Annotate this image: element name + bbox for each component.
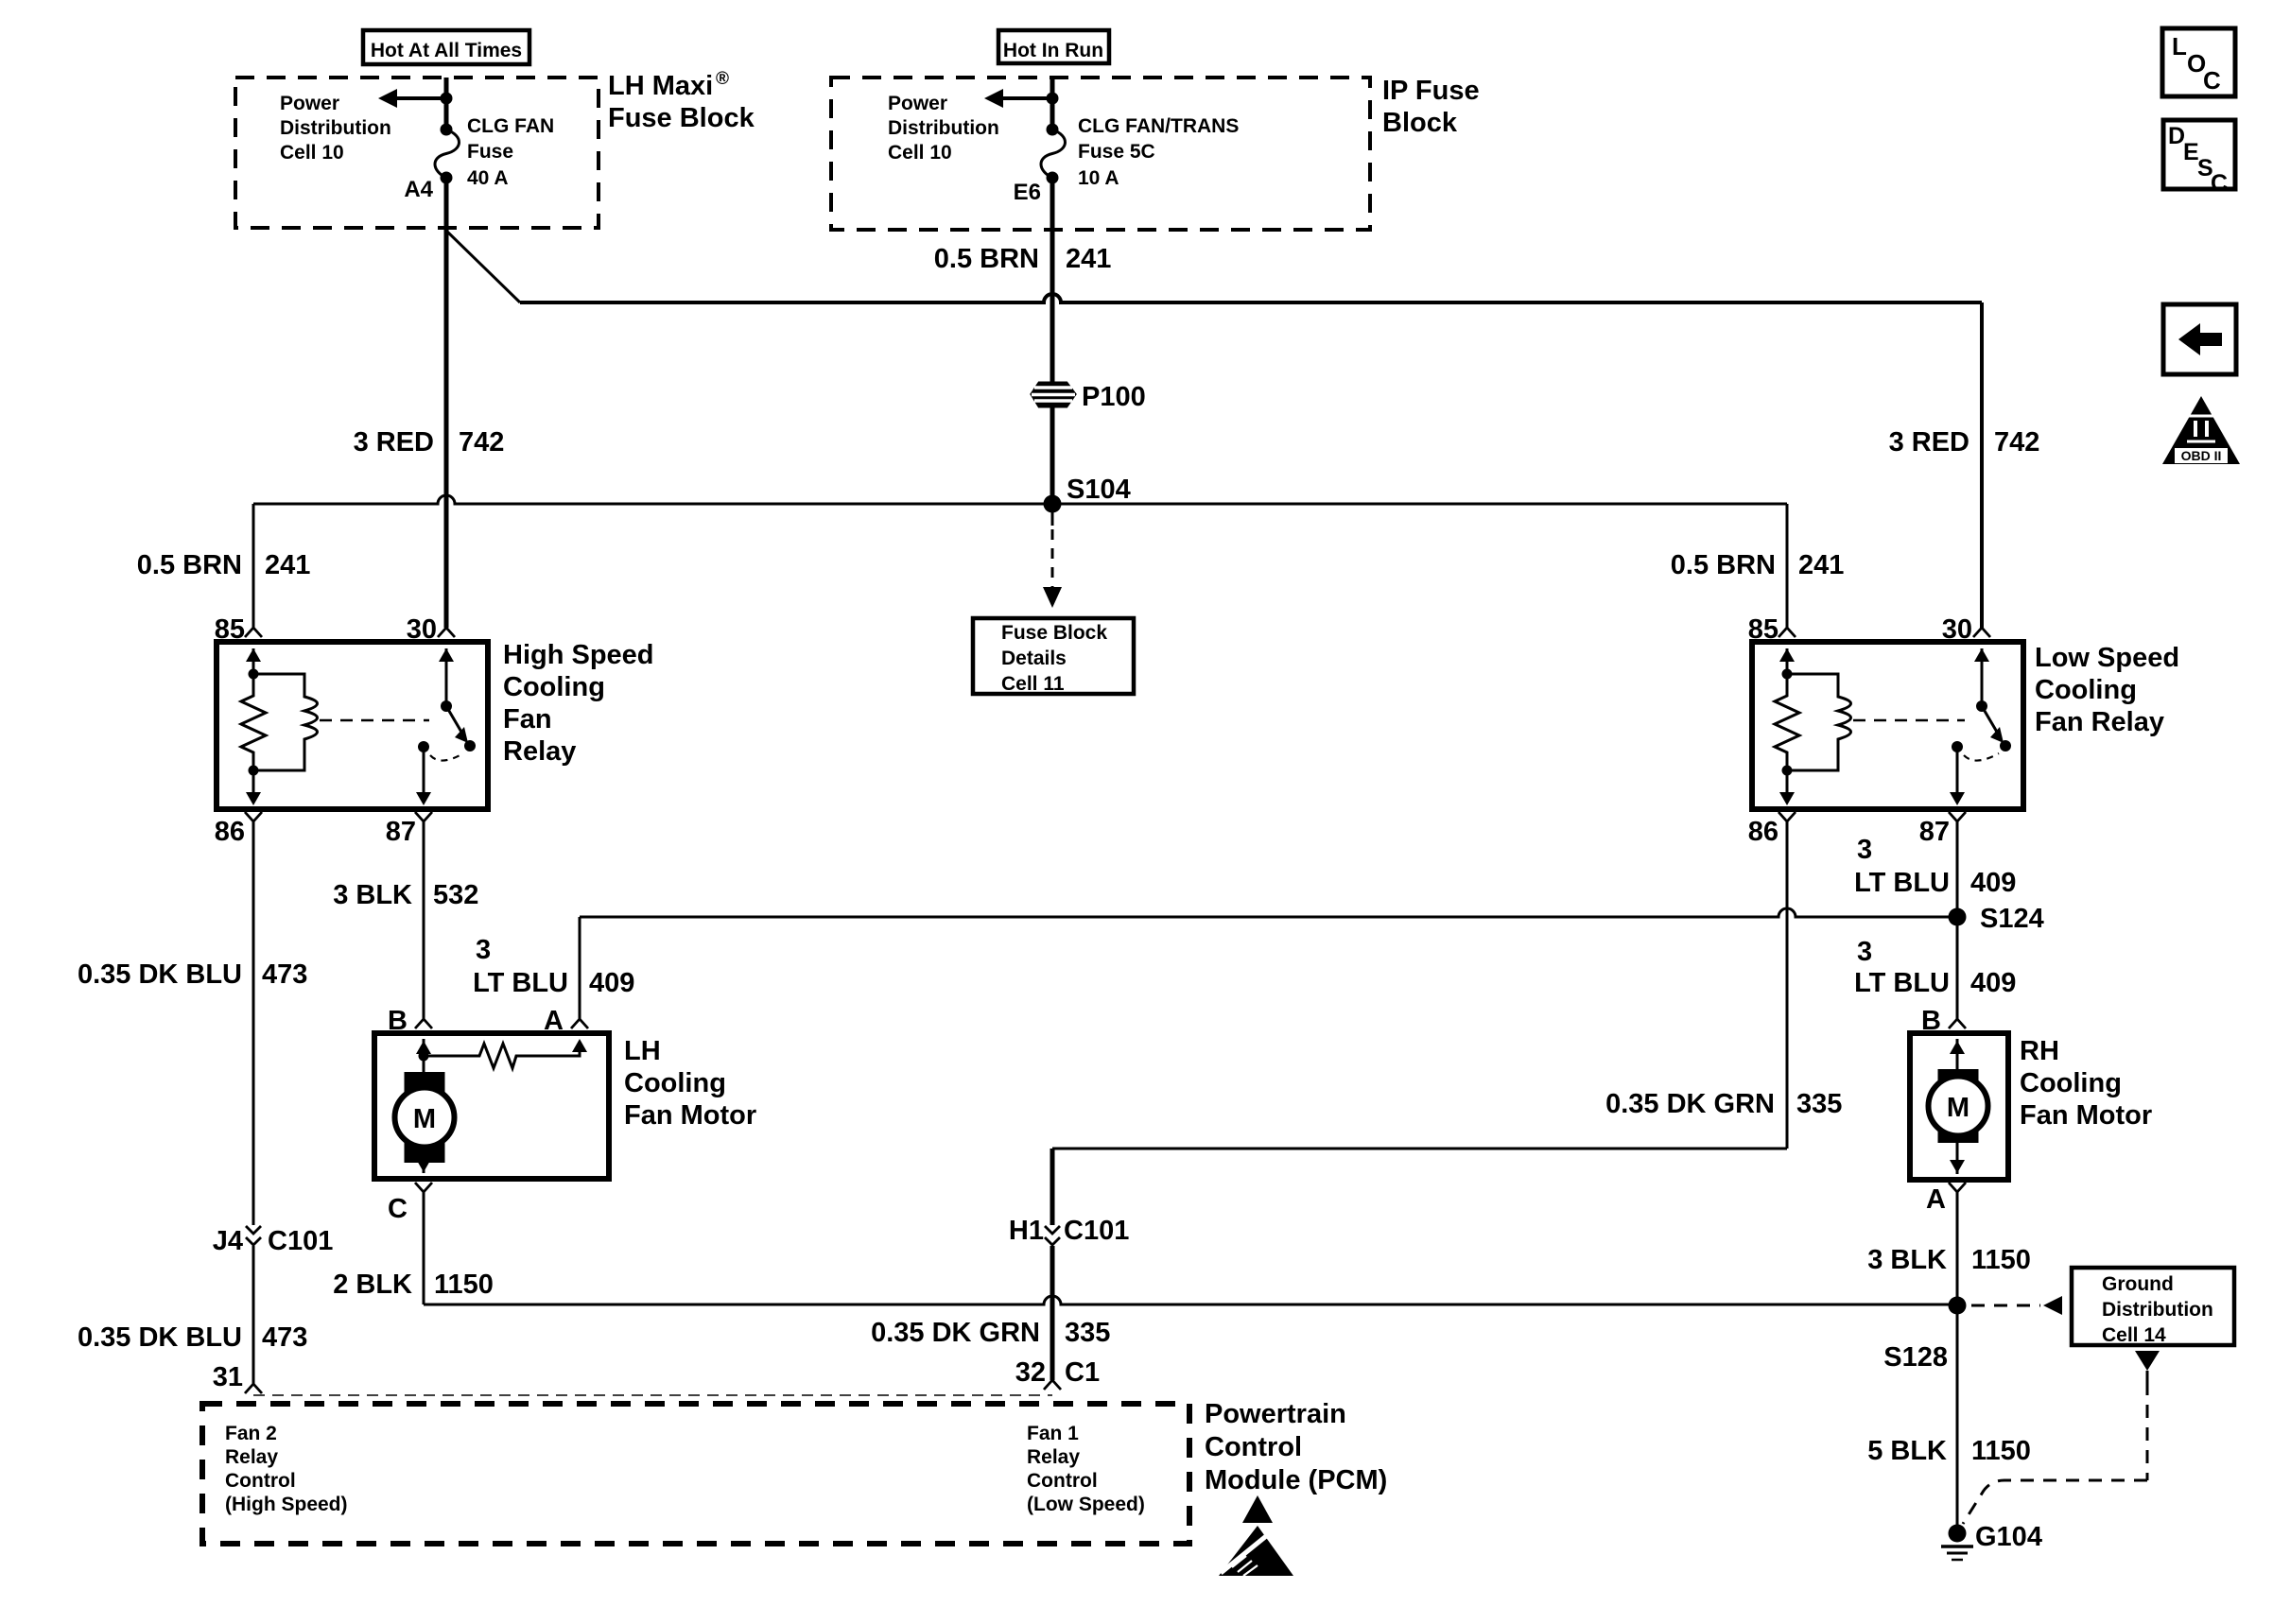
svg-text:A: A [544,1006,564,1036]
wire down to High relay pin 85 [252,504,255,628]
svg-text:30: 30 [407,614,437,645]
wire 3 BLK 532 from high relay 87 to LH motor pin B [423,821,425,1019]
svg-text:3 RED: 3 RED [1889,427,1969,458]
svg-text:S104: S104 [1067,475,1131,505]
svg-text:Cell 10: Cell 10 [888,142,952,164]
relay High Speed Cooling Fan Relay [217,642,488,809]
svg-text:Fan: Fan [503,704,552,734]
svg-text:IP Fuse: IP Fuse [1382,76,1480,106]
dashed reference from Ground Distribution down to G104 [2135,1351,2160,1371]
node feed junction (LH Maxi) [441,93,453,105]
icon back arrow box [2163,304,2236,374]
svg-text:Ground: Ground [2102,1273,2174,1295]
svg-text:(Low Speed): (Low Speed) [1027,1494,1145,1515]
svg-text:C1: C1 [1065,1357,1100,1388]
wire 0.35 DK GRN 335 from low relay 86 to PCM pin 32 [1786,821,1789,1149]
wire 3 LT BLU 409 from low relay 87 through S124 to RH motor pin B [1956,821,1959,1019]
svg-text:31: 31 [213,1362,243,1392]
svg-text:Cell 14: Cell 14 [2102,1324,2166,1346]
svg-text:Distribution: Distribution [280,117,391,139]
internal resistor between motor pins B and A [419,1051,429,1062]
wire 3 RED 742 branch diagonal [446,231,520,302]
reference box Ground Distribution Cell 14 [2072,1268,2234,1345]
svg-text:High Speed: High Speed [503,640,654,670]
svg-text:G104: G104 [1975,1522,2042,1552]
svg-text:Cell 10: Cell 10 [280,142,344,164]
relay Low Speed Cooling Fan Relay [1752,642,2023,809]
svg-text:B: B [1921,1006,1941,1036]
splice S104 [1044,495,1062,513]
svg-text:Fuse Block: Fuse Block [608,103,755,133]
svg-text:742: 742 [459,427,504,458]
dashed reference arrow from S104 to Fuse Block Details [1051,504,1054,526]
svg-text:335: 335 [1796,1089,1842,1119]
ESD sensitivity symbol [1242,1495,1273,1523]
svg-text:241: 241 [1798,550,1844,580]
splice S124 [1949,908,1967,926]
reference box Fuse Block Details Cell 11 [973,618,1134,694]
pin A connector symbol [571,1019,588,1028]
PCM dashed box (Powertrain Control Module) [202,1404,1189,1544]
power feed box "Hot In Run" [998,30,1109,63]
svg-text:Fan 1: Fan 1 [1027,1423,1079,1444]
svg-text:532: 532 [433,880,478,910]
svg-text:1150: 1150 [434,1270,494,1300]
svg-text:B: B [388,1006,408,1036]
svg-text:87: 87 [386,817,416,847]
wire from Hot At All Times into fuse block [444,78,449,130]
svg-text:Control: Control [1027,1470,1098,1492]
svg-text:85: 85 [215,614,245,645]
wire 0.35 DK BLU 473 from high relay 86 to PCM pin 31 [252,821,255,1225]
svg-text:C101: C101 [268,1226,333,1256]
svg-text:C: C [2211,170,2228,197]
PCM connector pin row (thin dashed) [253,1394,1052,1396]
svg-text:Low Speed: Low Speed [2035,643,2179,673]
svg-text:LH Maxi: LH Maxi [608,71,713,101]
svg-text:H1: H1 [1009,1216,1044,1246]
ground G104 [1949,1525,1967,1543]
svg-text:409: 409 [1970,968,2016,998]
svg-text:3: 3 [476,935,491,965]
svg-text:S128: S128 [1883,1342,1948,1373]
svg-text:Distribution: Distribution [2102,1299,2213,1321]
svg-text:473: 473 [262,1322,307,1353]
pin C connector symbol [415,1183,432,1192]
motor RH Cooling Fan Motor [1910,1033,2008,1180]
svg-text:Relay: Relay [503,736,576,767]
svg-text:Relay: Relay [1027,1446,1080,1468]
svg-text:3: 3 [1857,835,1872,865]
svg-text:32: 32 [1015,1357,1046,1388]
svg-text:CLG FAN/TRANS: CLG FAN/TRANS [1078,115,1239,137]
svg-text:3 BLK: 3 BLK [1867,1245,1947,1275]
svg-text:Fuse: Fuse [467,141,513,163]
svg-text:40 A: 40 A [467,167,509,189]
svg-text:RH: RH [2020,1036,2059,1066]
svg-text:85: 85 [1748,614,1778,645]
svg-text:®: ® [716,69,729,89]
svg-text:Fan Relay: Fan Relay [2035,707,2164,737]
icon DESC box [2163,120,2235,189]
svg-text:S124: S124 [1980,904,2044,934]
svg-text:P100: P100 [1082,382,1146,412]
pin B connector symbol (RH) [1949,1019,1966,1028]
svg-text:10 A: 10 A [1078,167,1119,189]
svg-text:409: 409 [1970,868,2016,898]
svg-text:0.5 BRN: 0.5 BRN [1671,550,1776,580]
arrow to Power Distribution Cell 10 (IP) [999,96,1052,100]
svg-text:0.5 BRN: 0.5 BRN [934,244,1039,274]
svg-text:1150: 1150 [1971,1245,2031,1275]
wire 0.5 BRN 241 from E6 down to S104 [1050,178,1055,384]
svg-text:A4: A4 [404,177,433,202]
svg-text:Cooling: Cooling [2020,1068,2122,1098]
svg-text:86: 86 [1748,817,1778,847]
svg-text:C101: C101 [1064,1216,1129,1246]
svg-text:Fuse Block: Fuse Block [1001,622,1107,644]
svg-text:86: 86 [215,817,245,847]
svg-text:Fan 2: Fan 2 [225,1423,277,1444]
svg-text:LT BLU: LT BLU [473,968,568,998]
svg-text:0.35 DK BLU: 0.35 DK BLU [78,959,242,990]
svg-text:Powertrain: Powertrain [1205,1399,1346,1429]
svg-text:30: 30 [1942,614,1972,645]
svg-text:0.35 DK BLU: 0.35 DK BLU [78,1322,242,1353]
wire from Hot In Run into fuse block [1050,78,1055,130]
svg-text:LH: LH [624,1036,661,1066]
power feed box "Hot At All Times" [363,30,529,64]
svg-text:409: 409 [589,968,634,998]
pin B connector symbol [415,1019,432,1028]
wire 2 BLK 1150 from LH motor pin C to S128 (hop over DK GRN wire) [423,1192,425,1304]
svg-text:Block: Block [1382,108,1458,138]
svg-text:M: M [413,1104,436,1134]
svg-text:LT BLU: LT BLU [1854,968,1950,998]
svg-text:335: 335 [1065,1318,1110,1348]
svg-text:M: M [1947,1093,1969,1123]
svg-text:Distribution: Distribution [888,117,999,139]
wire 3 RED 742 horizontal branch (hop over BRN wire) [520,294,1982,302]
svg-text:3: 3 [1857,937,1872,967]
icon LOC box [2162,28,2235,96]
IP Fuse Block dashed box [831,78,1370,230]
pin 31 connector symbol at PCM [245,1384,262,1393]
svg-text:0.35 DK GRN: 0.35 DK GRN [871,1318,1040,1348]
wire 5 BLK 1150 from S128 to G104 [1956,1305,1959,1533]
svg-text:3 BLK: 3 BLK [333,880,412,910]
svg-text:3 RED: 3 RED [354,427,434,458]
svg-text:Module (PCM): Module (PCM) [1205,1465,1387,1495]
svg-text:1150: 1150 [1971,1436,2031,1466]
svg-text:742: 742 [1994,427,2039,458]
connector P100 symbol [1032,383,1075,406]
svg-text:L: L [2172,32,2187,60]
svg-text:5 BLK: 5 BLK [1867,1436,1947,1466]
svg-text:87: 87 [1919,817,1950,847]
svg-text:0.5 BRN: 0.5 BRN [137,550,242,580]
LH Maxi Fuse Block dashed box [235,78,599,228]
svg-text:Fan Motor: Fan Motor [624,1100,756,1131]
svg-text:Relay: Relay [225,1446,278,1468]
svg-text:J4: J4 [213,1226,243,1256]
svg-text:Cooling: Cooling [503,672,605,702]
pin A connector symbol (RH) [1949,1183,1966,1192]
wire 3 BLK 1150 from RH motor pin A to S128 [1956,1192,1959,1305]
svg-text:Cooling: Cooling [2035,675,2137,705]
svg-text:C: C [2203,66,2221,95]
icon OBD II triangle [2162,396,2240,464]
dashed reference from S128 to Ground Distribution [1971,1304,2040,1307]
svg-text:OBD II: OBD II [2181,448,2222,463]
svg-text:241: 241 [265,550,310,580]
svg-text:241: 241 [1066,244,1111,274]
wire 3 RED 742 from A4 down to High relay pin 30 [444,178,449,628]
svg-text:LT BLU: LT BLU [1854,868,1950,898]
svg-text:0.35 DK GRN: 0.35 DK GRN [1605,1089,1775,1119]
svg-text:Cell 11: Cell 11 [1001,673,1065,695]
svg-text:Hot In Run: Hot In Run [1003,40,1103,61]
wire 3 RED 742 down to Low relay pin 30 [1980,302,1984,628]
wire 3 LT BLU 409 from LH motor pin A to S124 (hop over DK GRN wire) [579,917,581,1019]
connector J4 C101 [246,1226,261,1234]
svg-text:(High Speed): (High Speed) [225,1494,348,1515]
wire P100 to S104 [1050,406,1055,504]
splice S128 [1949,1297,1967,1315]
svg-text:473: 473 [262,959,307,990]
svg-text:Control: Control [1205,1432,1302,1462]
svg-text:Control: Control [225,1470,296,1492]
connector H1 C101 [1045,1226,1060,1234]
svg-text:Fuse 5C: Fuse 5C [1078,141,1155,163]
motor LH Cooling Fan Motor [374,1033,609,1179]
arrow to Power Distribution Cell 10 [393,96,446,100]
svg-text:Power: Power [280,93,339,114]
svg-text:Hot At All Times: Hot At All Times [371,40,522,61]
fuse CLG FAN 40 A [441,124,453,136]
pin 32 connector symbol at PCM [1044,1380,1061,1390]
svg-text:2 BLK: 2 BLK [333,1270,412,1300]
wire 0.5 BRN bus from S104 to both relay pins 85 (hop over RED wire) [253,495,1787,504]
svg-text:Cooling: Cooling [624,1068,726,1098]
svg-text:CLG FAN: CLG FAN [467,115,554,137]
svg-text:Power: Power [888,93,947,114]
svg-text:A: A [1926,1184,1946,1215]
node feed junction (IP) [1047,93,1059,105]
svg-text:E6: E6 [1014,180,1041,205]
fuse CLG FAN/TRANS 10 A [1047,124,1059,136]
svg-text:C: C [388,1194,408,1224]
wire down to Low relay pin 85 [1786,504,1789,628]
svg-text:Fan Motor: Fan Motor [2020,1100,2152,1131]
svg-text:Details: Details [1001,648,1067,669]
